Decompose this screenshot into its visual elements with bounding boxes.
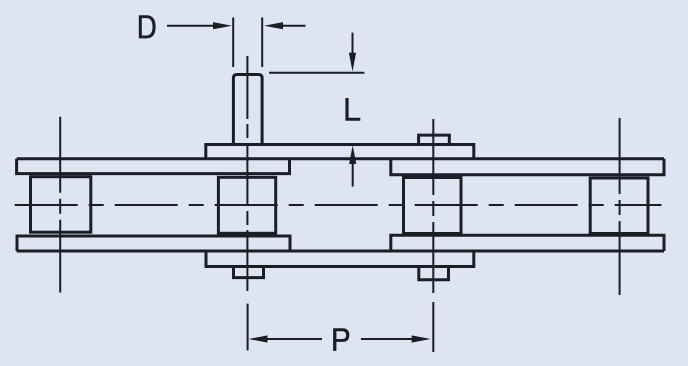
bottom inner plate right — [391, 235, 664, 251]
top outer pin-link plate — [206, 145, 474, 160]
L upper arrow — [352, 33, 354, 55]
pin 1 centerline — [59, 117, 61, 293]
P dimension line right with arrow — [361, 338, 413, 340]
horizontal centerline — [15, 204, 662, 206]
label D — [139, 15, 156, 38]
extended pin bottom end — [234, 267, 264, 278]
pin 4 centerline — [619, 118, 621, 295]
pin 3 bottom head — [419, 267, 449, 280]
P dimension line left with arrow — [266, 338, 322, 340]
roller 3 — [404, 178, 462, 234]
bottom inner plate left — [17, 236, 290, 251]
pin 2 centerline — [246, 56, 248, 291]
roller 1 — [31, 177, 91, 233]
D dimension line right with arrow — [283, 25, 306, 27]
D dimension line left with arrow — [167, 25, 215, 27]
pin 3 top head — [419, 135, 450, 144]
top inner plate left — [17, 159, 290, 174]
bottom outer pin-link plate — [206, 251, 474, 267]
pin 3 centerline — [432, 119, 434, 293]
top inner plate right — [391, 159, 664, 175]
top plate common edge line — [17, 157, 664, 160]
roller 2 — [218, 177, 275, 233]
D extension line right — [261, 17, 263, 67]
roller 4 — [590, 178, 648, 234]
extended pin body — [233, 75, 262, 145]
label L — [345, 98, 360, 121]
bottom plate common edge line — [17, 250, 664, 253]
label P — [333, 328, 349, 351]
D extension line left — [232, 17, 234, 67]
L lower arrow — [352, 164, 354, 187]
P extension line right — [432, 302, 434, 352]
L extension line — [269, 72, 364, 74]
P extension line left — [247, 304, 249, 351]
